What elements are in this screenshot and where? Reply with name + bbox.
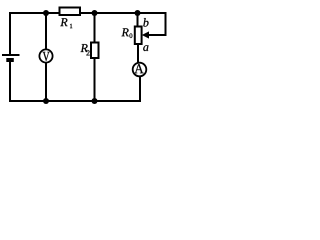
node a label glyph xyxy=(143,45,148,51)
label R2 "R" xyxy=(81,44,88,52)
label R2 sub "2" xyxy=(86,50,89,55)
wire voltmeter branch upper xyxy=(45,13,47,50)
ammeter letter A xyxy=(134,64,143,73)
wire left vertical upper (to battery) xyxy=(9,12,11,54)
label R0 sub "0" xyxy=(130,33,133,38)
junction node top-R2 xyxy=(92,10,98,16)
resistor R1 box xyxy=(60,8,81,16)
wire left vertical lower (from battery) xyxy=(9,61,11,102)
junction node bottom-R2 xyxy=(92,98,98,104)
battery cell: short thick plate xyxy=(6,58,14,62)
battery cell: long plate xyxy=(2,54,20,56)
rheostat R0 box xyxy=(135,27,142,45)
label R0 "R" xyxy=(122,28,129,36)
junction node top-voltmeter xyxy=(43,10,49,16)
junction node bottom-voltmeter xyxy=(43,98,49,104)
wire bottom horizontal xyxy=(9,100,141,102)
junction node top-R0 xyxy=(135,10,141,16)
wire slider loop (top right corner down to wiper) xyxy=(149,12,166,35)
wire R0 to ammeter xyxy=(137,44,139,64)
wire top horizontal xyxy=(10,12,166,14)
wire R2 branch upper xyxy=(94,13,96,43)
resistor R2 box xyxy=(91,43,99,59)
wiper arrowhead xyxy=(142,31,149,38)
wire R0 branch upper xyxy=(137,13,139,27)
wire ammeter to bottom xyxy=(139,76,141,101)
ammeter A xyxy=(133,63,147,77)
wire R2 branch lower xyxy=(94,57,96,101)
voltmeter V xyxy=(39,49,52,62)
wire voltmeter branch lower xyxy=(45,62,47,101)
voltmeter letter V xyxy=(43,52,50,61)
node b label glyph xyxy=(143,18,148,26)
label R1 "R" xyxy=(60,18,67,26)
label R1 sub "1" xyxy=(70,24,72,28)
